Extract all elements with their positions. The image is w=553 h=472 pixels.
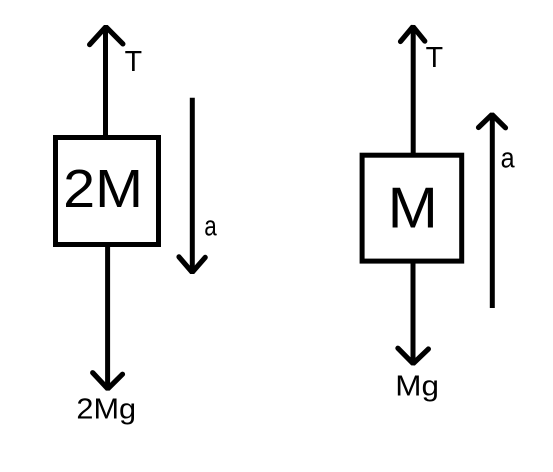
node label 2M [63,159,143,219]
resistor block M box [362,155,462,261]
node arrowhead down left weight [93,373,123,389]
svg-text:T: T [125,46,142,78]
node arrowhead up left T [90,27,123,45]
wire acceleration arrow shaft right (a up) [490,116,495,308]
node arrowhead down left a [179,257,205,272]
svg-text:a: a [204,211,217,243]
resistor block 2M box [56,138,159,245]
node arrowhead up right T [401,27,425,42]
svg-text:2Mg: 2Mg [76,393,136,425]
wire weight arrow shaft right (Mg) [411,262,416,362]
node arrowhead down right weight [398,348,429,363]
wire weight arrow shaft left (2Mg) [105,245,110,388]
svg-text:T: T [426,42,443,74]
wire acceleration arrow shaft left (a down) [190,98,195,271]
svg-text:Mg: Mg [395,371,439,402]
wire tension arrow shaft left (T on 2M) [103,27,108,137]
svg-text:2M: 2M [63,159,143,219]
node label M [388,177,438,240]
wire tension arrow shaft right (T on M) [411,27,416,155]
svg-text:a: a [501,142,515,174]
node label Mg [395,371,439,402]
svg-text:M: M [388,177,438,240]
node arrowhead up right a [479,115,506,128]
node label 2Mg [76,393,136,425]
